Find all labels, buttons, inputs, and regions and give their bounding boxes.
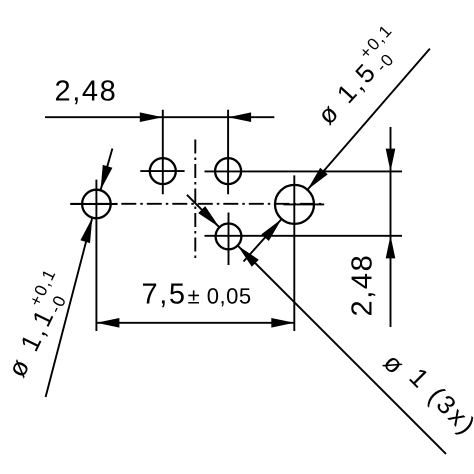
arrow right dim bottom bbox=[386, 235, 396, 258]
C1 vertical centerline / extension line bbox=[162, 110, 164, 194]
horizontal centerline bbox=[70, 203, 324, 205]
arrow top dim left bbox=[140, 112, 163, 122]
arrow 7,5 left bbox=[96, 318, 119, 328]
vertical centerline bbox=[194, 140, 196, 261]
C2 horizontal centerline / extension line to right dim bbox=[205, 170, 403, 172]
arrow d1,5 upper bbox=[307, 168, 327, 190]
hole C5 right large bbox=[275, 185, 314, 224]
leader d1(3x) lower tail bbox=[238, 246, 446, 454]
leader d1,5 lower tail bbox=[244, 219, 282, 262]
dimension line 2,48 top bbox=[45, 116, 274, 118]
C1 horizontal centerline bbox=[140, 170, 184, 172]
svg-text:2,48: 2,48 bbox=[347, 254, 379, 317]
C5 vertical centerline / extension line down bbox=[293, 175, 295, 331]
hole C1 top-left bbox=[150, 158, 176, 184]
hole C2 top-right bbox=[215, 158, 241, 184]
C5 horizontal centerline bbox=[284, 203, 325, 205]
arrow right dim top bbox=[386, 149, 396, 172]
C2 vertical centerline / extension line bbox=[227, 110, 229, 194]
dimension line 2,48 right vertical bbox=[390, 127, 392, 327]
C3 vertical centerline / extension line down bbox=[95, 180, 97, 331]
arrow d1(3x) lower bbox=[238, 246, 259, 267]
leader d1(3x) upper tail bbox=[187, 195, 220, 228]
arrow top dim right bbox=[228, 112, 251, 122]
svg-text:7,5± 0,05: 7,5± 0,05 bbox=[142, 279, 252, 311]
C3 horizontal centerline bbox=[70, 203, 117, 205]
C4 horizontal centerline / extension line to right dim bbox=[205, 235, 403, 237]
leader d1,5 upper tail bbox=[307, 49, 430, 190]
arrow d1,1 lower bbox=[80, 218, 92, 243]
arrow 7,5 right bbox=[271, 318, 294, 328]
leader d1,1 lower tail bbox=[46, 218, 93, 397]
arrow d1,1 upper bbox=[101, 165, 113, 190]
arrow d1(3x) upper bbox=[198, 206, 219, 227]
svg-text:2,48: 2,48 bbox=[55, 76, 118, 108]
dimension line 7,5 bbox=[96, 322, 294, 324]
C4 vertical centerline bbox=[228, 213, 230, 266]
hole C3 left bbox=[82, 190, 111, 219]
hole C4 bottom-center bbox=[216, 224, 242, 250]
leader d1,1 upper tail bbox=[101, 149, 113, 191]
arrow d1,5 lower bbox=[261, 219, 281, 241]
